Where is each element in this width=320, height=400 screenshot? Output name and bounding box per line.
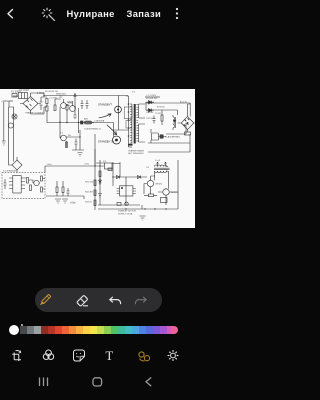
svg-text:BF420: BF420 — [156, 184, 163, 186]
svg-text:D+ B: D+ B — [155, 160, 160, 162]
svg-text:SEC WINDINGS: SEC WINDINGS — [128, 153, 144, 155]
svg-text:Q2: Q2 — [59, 95, 63, 99]
svg-text:CLAGGRRMKL4J: CLAGGRRMKL4J — [84, 127, 101, 130]
svg-text:Tr1: Tr1 — [132, 91, 136, 94]
svg-text:TL431: TL431 — [155, 113, 162, 115]
svg-text:R12: R12 — [68, 103, 73, 105]
svg-text:C22 100n: C22 100n — [146, 118, 156, 120]
svg-text:1 5KΩ: 1 5KΩ — [37, 91, 44, 95]
svg-text:1N4148: 1N4148 — [146, 112, 154, 114]
svg-text:BF423: BF423 — [171, 192, 178, 194]
svg-text:CLAGGRRMKL: CLAGGRRMKL — [165, 136, 181, 139]
svg-text:R31 10K: R31 10K — [85, 182, 94, 184]
svg-text:~230V: ~230V — [1, 99, 9, 103]
svg-text:IC4: IC4 — [103, 161, 107, 163]
svg-text:Запази: Запази — [127, 8, 162, 19]
svg-text:BYV26C: BYV26C — [157, 107, 165, 109]
svg-text:AH1: AH1 — [84, 118, 89, 121]
svg-text:Tr2: Tr2 — [146, 166, 150, 169]
svg-text:IC2 STANDBY: IC2 STANDBY — [3, 170, 17, 173]
svg-text:+5Va: +5Va — [47, 164, 53, 166]
svg-text:STANDBY?: STANDBY? — [98, 103, 112, 107]
svg-text:C 1J 250V: C 1J 250V — [146, 95, 157, 97]
svg-text:TRANSF 4x1N4007: TRANSF 4x1N4007 — [25, 112, 45, 115]
svg-text:R32 4K7: R32 4K7 — [85, 192, 94, 194]
svg-text:STANDBY MOTOR: STANDBY MOTOR — [118, 210, 136, 213]
svg-text:C1 470n: C1 470n — [49, 98, 58, 100]
svg-text:R 100K 2W: R 100K 2W — [146, 98, 158, 100]
svg-text:+5Va: +5Va — [70, 202, 76, 205]
svg-text:STANDBY 5V: STANDBY 5V — [98, 140, 115, 144]
svg-text:T: T — [106, 349, 114, 363]
svg-text:T.1: T.1 — [60, 133, 64, 135]
svg-text:+5Va: +5Va — [84, 164, 90, 166]
svg-text:C1AGGRA: C1AGGRA — [94, 120, 105, 123]
svg-text:L0 COM: L0 COM — [19, 89, 29, 92]
svg-text:SUPPLY 5V/1A: SUPPLY 5V/1A — [118, 213, 133, 216]
svg-text:R33 1K: R33 1K — [85, 202, 93, 204]
svg-text:B+D 4x: B+D 4x — [180, 102, 188, 104]
svg-text:R5: R5 — [68, 135, 72, 137]
svg-text:Нулиране: Нулиране — [67, 8, 115, 19]
